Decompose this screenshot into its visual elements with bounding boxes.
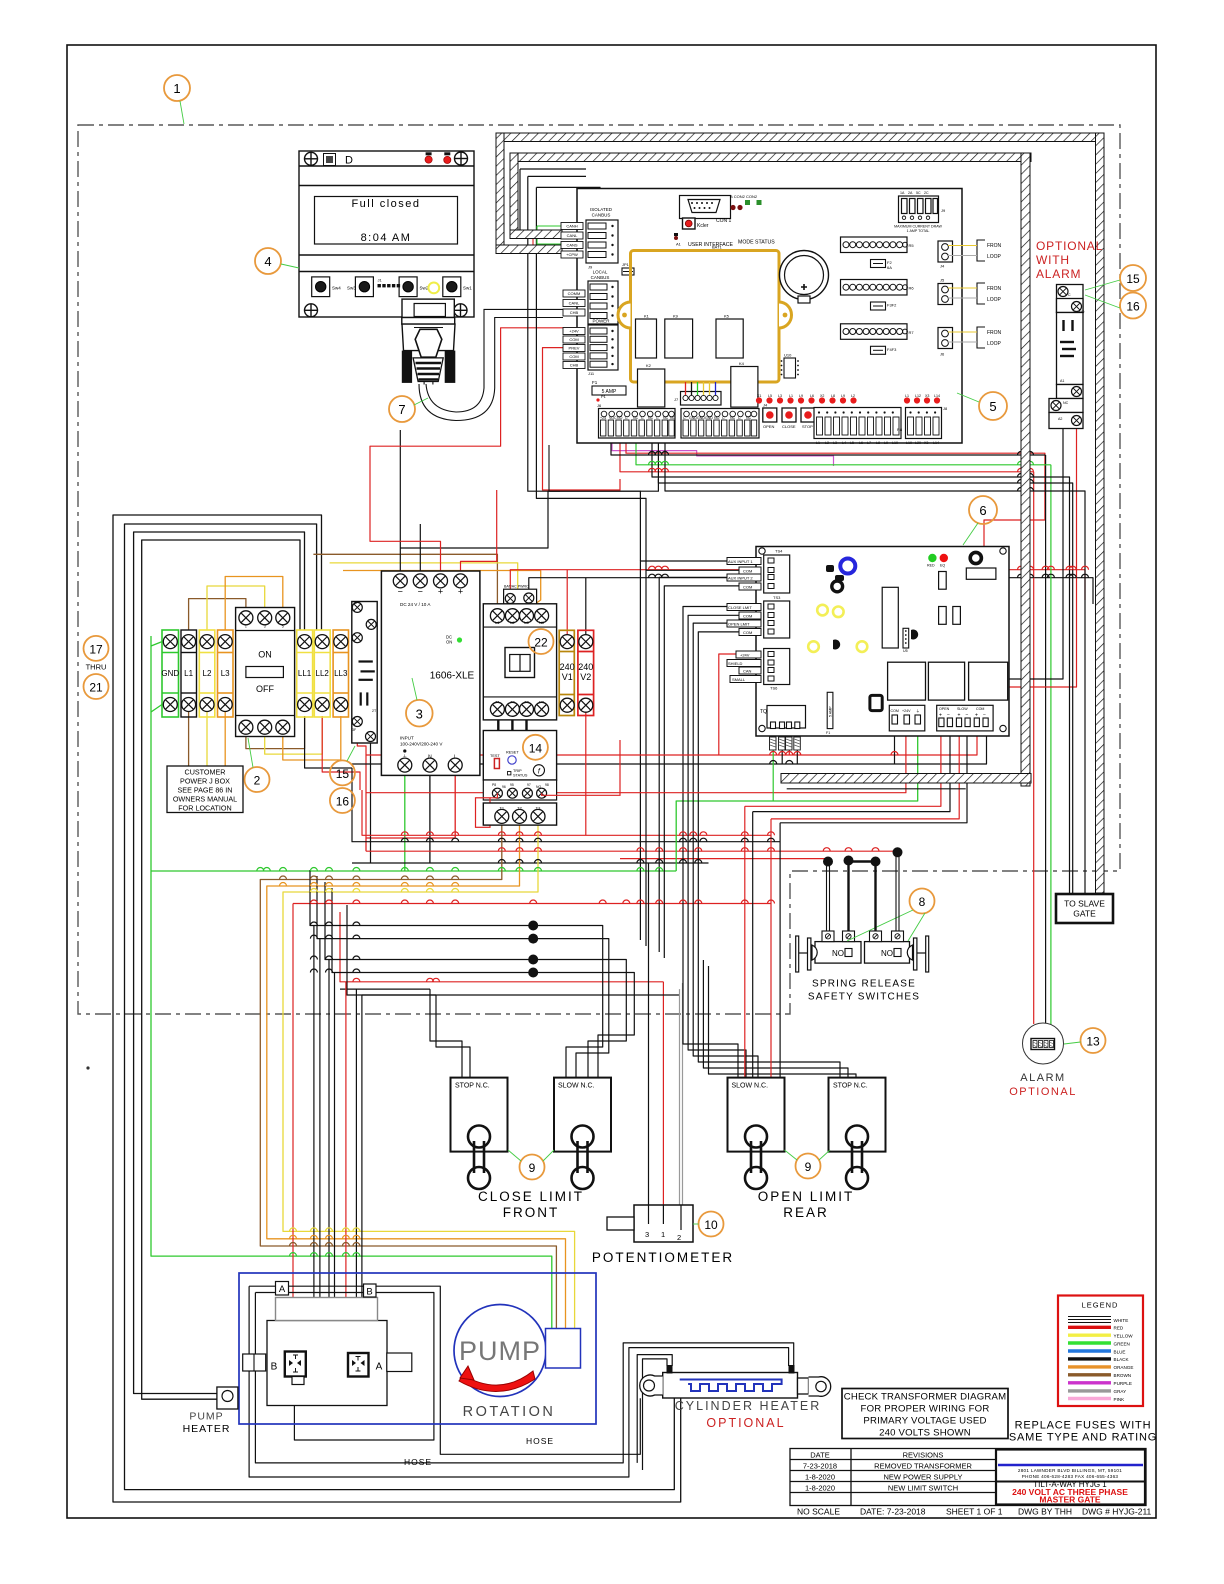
contactor-overload links [498, 720, 526, 731]
svg-text:L9: L9 [841, 394, 845, 398]
wire yellow power top bus [330, 563, 518, 610]
svg-text:8: 8 [919, 895, 926, 909]
svg-text:+CPW: +CPW [566, 252, 578, 257]
wire black board5 bus [611, 438, 1046, 455]
svg-text:ROTATION: ROTATION [463, 1404, 556, 1420]
svg-text:GND: GND [161, 669, 179, 678]
svg-text:OFF: OFF [256, 684, 274, 694]
pump enclosure blue box [239, 1273, 596, 1424]
keypad buttons Sw4 Sw3 Sw2 Sw1 [312, 277, 461, 297]
svg-text:K5: K5 [724, 314, 730, 319]
wire black relay coil [1009, 429, 1063, 679]
wire green gnd jumpers [151, 642, 162, 646]
svg-text:K2: K2 [646, 363, 652, 368]
svg-text:L20: L20 [915, 441, 921, 445]
B tag [364, 1284, 377, 1297]
TQ wire tags [770, 737, 801, 750]
svg-text:OPEN: OPEN [763, 424, 774, 429]
callout circle 9 front [520, 1155, 545, 1180]
svg-text:FRONT: FRONT [503, 1205, 560, 1220]
svg-text:OPTIONAL: OPTIONAL [706, 1416, 785, 1430]
TO SLAVE GATE box [1056, 894, 1113, 923]
svg-text:L14: L14 [934, 394, 940, 398]
svg-text:R7: R7 [909, 330, 915, 335]
svg-text:USER INTERFACE: USER INTERFACE [688, 242, 734, 248]
spring release switch left [815, 942, 861, 964]
svg-text:NC: NC [648, 416, 654, 420]
svg-text:ALARM: ALARM [1036, 267, 1081, 281]
pump terminal box [546, 1329, 581, 1369]
serial cable 7 [426, 309, 563, 412]
svg-text:A2: A2 [1058, 417, 1062, 421]
cylinder left ear [640, 1375, 663, 1396]
svg-text:COM: COM [743, 585, 752, 590]
svg-text:R6: R6 [909, 286, 915, 291]
callout circle 15 [1120, 265, 1146, 291]
svg-text:2801 LAWNDER BLVD BILLINGS, MT: 2801 LAWNDER BLVD BILLINGS, MT, 59101 [1018, 1468, 1122, 1473]
callout circle 4 [255, 248, 281, 274]
wire black pump solenoid pair1 [313, 926, 315, 1323]
svg-text:CANH: CANH [566, 224, 577, 229]
svg-text:L12: L12 [915, 394, 921, 398]
svg-text:8:04 AM: 8:04 AM [361, 232, 412, 244]
svg-text:WHITE: WHITE [1114, 1318, 1129, 1323]
bottom info row [797, 1507, 1152, 1517]
svg-text:COM: COM [569, 354, 578, 359]
svg-text:V2: V2 [580, 672, 591, 682]
board6 TS4 labels [727, 558, 761, 591]
svg-text:L8: L8 [876, 441, 880, 445]
svg-text:L3: L3 [778, 394, 782, 398]
wire orange T2 bus [267, 824, 566, 1330]
control board U5 outline [577, 189, 962, 444]
svg-text:JP1: JP1 [622, 262, 630, 267]
wire duct inner hatched band [510, 153, 1031, 789]
svg-text:LOCAL: LOCAL [593, 270, 608, 275]
fuse holder 240V1 [559, 630, 574, 715]
spring switch terminals [822, 931, 904, 942]
wire red solenoid B [292, 904, 294, 1352]
svg-text:B: B [366, 1287, 372, 1298]
svg-text:97: 97 [527, 783, 531, 787]
svg-text:L1: L1 [816, 441, 820, 445]
svg-text:OPEN LIMIT: OPEN LIMIT [758, 1189, 855, 1204]
svg-text:STATUS: STATUS [513, 774, 528, 778]
svg-text:STOP N.C.: STOP N.C. [455, 1083, 490, 1090]
svg-text:5: 5 [989, 399, 996, 414]
wire black bus under board6 [352, 727, 987, 764]
legend brown wire [1068, 1373, 1111, 1376]
svg-text:CON 1: CON 1 [716, 218, 732, 224]
svg-text:STOP: STOP [802, 424, 813, 429]
svg-text:L2: L2 [825, 441, 829, 445]
svg-text:1 AMP TOTAL: 1 AMP TOTAL [907, 229, 930, 233]
wire yellow L2 to disconnect [207, 586, 265, 630]
svg-text:MODE STATUS: MODE STATUS [738, 240, 775, 246]
svg-text:L4: L4 [842, 441, 846, 445]
svg-text:5 AMP: 5 AMP [829, 706, 833, 717]
svg-text:SEE PAGE 86 IN: SEE PAGE 86 IN [178, 786, 233, 795]
wire red canbus [533, 235, 588, 237]
wire red pot bus 981 [340, 912, 663, 982]
svg-text:SLOW N.C.: SLOW N.C. [558, 1083, 595, 1090]
solenoid B [285, 1352, 306, 1377]
board5 J7 connector colored wires [681, 392, 722, 406]
wire red TS2 24v [719, 654, 736, 755]
svg-text:L1: L1 [184, 669, 193, 678]
svg-text:HEATER: HEATER [183, 1423, 231, 1435]
terminal column L1 [181, 630, 197, 717]
svg-text:ON: ON [446, 640, 452, 645]
wire brown L1 bottom [188, 712, 190, 766]
solenoid A [348, 1353, 369, 1377]
svg-text:GRAY: GRAY [1114, 1389, 1127, 1394]
svg-text:LL1: LL1 [298, 669, 312, 678]
wire green board6 earth [676, 727, 918, 871]
svg-text:WITH: WITH [1036, 253, 1070, 267]
wire green psu earth [404, 772, 406, 871]
svg-text:SLOW: SLOW [957, 707, 968, 711]
svg-text:16: 16 [336, 795, 350, 809]
board6 black ring [970, 552, 981, 563]
DB9 side grips [402, 351, 412, 383]
svg-text:PUMP: PUMP [189, 1411, 223, 1423]
keypad logo chip [324, 154, 336, 166]
FRONT LOOP bracket labels [977, 240, 985, 348]
svg-text:P8: P8 [492, 783, 496, 787]
terminal column L2 [199, 630, 215, 717]
wire black rear stop [703, 960, 848, 1077]
callout circle 16b [330, 788, 355, 813]
svg-text:NC: NC [730, 416, 736, 420]
wire red solenoid A [346, 982, 357, 1353]
wire green canbus [537, 225, 588, 227]
svg-text:L2: L2 [203, 669, 212, 678]
board5 bottom terminal strip 4 [906, 408, 942, 439]
svg-text:2: 2 [254, 774, 261, 788]
svg-text:NC: NC [1063, 401, 1069, 405]
svg-text:OPTIONAL: OPTIONAL [1036, 239, 1103, 253]
terminal column GND [162, 630, 179, 717]
svg-text:6A: 6A [887, 265, 892, 270]
svg-text:CLOSE LMIT: CLOSE LMIT [728, 605, 752, 610]
callout circle 9 rear [796, 1154, 821, 1179]
limit switch STOP NC rear [829, 1078, 886, 1152]
svg-text:NEW LIMIT SWITCH: NEW LIMIT SWITCH [888, 1484, 958, 1493]
wire red psu L [366, 772, 455, 851]
board5 CPU module gold outline [618, 251, 792, 383]
board5 CON1 LED [683, 218, 696, 229]
svg-text:L7: L7 [867, 441, 871, 445]
svg-text:NC: NC [746, 416, 752, 420]
circuit breaker CB1 [352, 602, 377, 744]
legend blue wire [1068, 1349, 1111, 1352]
wire black bus 938 [317, 876, 609, 1077]
board5 DB9 CON1 [680, 196, 731, 219]
svg-text:DC 24 V / 10 A: DC 24 V / 10 A [400, 602, 431, 607]
svg-text:LL3: LL3 [334, 669, 348, 678]
board5 LED row 2 [905, 394, 940, 398]
svg-text:240: 240 [578, 662, 593, 672]
DB9 connector P1 [402, 299, 455, 351]
svg-text:C: C [722, 416, 725, 420]
wire board6 power com [894, 727, 896, 764]
svg-text:F3F2: F3F2 [887, 303, 897, 308]
wire red open plus [745, 727, 941, 806]
wire red overload left [490, 793, 497, 798]
fuse holder 240V2 [578, 630, 594, 715]
board6 output connector [937, 705, 993, 731]
wire green bus 871 [151, 870, 676, 872]
wire red bus 903 [293, 903, 771, 905]
svg-text:GREEN: GREEN [1114, 1342, 1130, 1347]
svg-text:NEW POWER SUPPLY: NEW POWER SUPPLY [883, 1473, 962, 1482]
alarm connector circle 13 [1023, 1023, 1064, 1064]
title block table [790, 1449, 1146, 1506]
svg-text:95: 95 [510, 783, 514, 787]
valve manifold outer [267, 1321, 387, 1406]
callout circle 17 [84, 636, 109, 661]
svg-text:COM: COM [743, 614, 752, 619]
svg-text:THRU: THRU [86, 663, 107, 672]
wire purple board5 [612, 438, 834, 466]
alarm relay K15 [1049, 285, 1083, 429]
LEGEND box [1058, 1296, 1143, 1407]
svg-text:A1: A1 [1060, 379, 1064, 383]
svg-text:PURPLE: PURPLE [1114, 1381, 1132, 1386]
svg-text:LEGEND: LEGEND [1082, 1301, 1119, 1310]
board6 tall component [882, 587, 898, 648]
legend green wire [1068, 1341, 1111, 1344]
svg-text:CLOSE: CLOSE [782, 424, 796, 429]
T1 T2 T3 output block [483, 803, 556, 825]
board6 small rects [939, 572, 947, 590]
svg-text:+: + [438, 587, 443, 597]
svg-text:NC: NC [663, 416, 669, 420]
board6 relays [888, 662, 926, 700]
cylinder right cap [798, 1378, 809, 1394]
svg-text:LOOP: LOOP [987, 254, 1002, 260]
board5 bottom terminal strip 3 [814, 408, 901, 439]
enclosure dash-dot boundary [78, 125, 1120, 1014]
svg-text:NO SCALE: NO SCALE [797, 1507, 840, 1517]
svg-text:⏚: ⏚ [916, 708, 920, 713]
svg-text:5C: 5C [916, 191, 921, 195]
DB9 thumb hexagon [415, 329, 442, 357]
wire black psu minus2 [419, 524, 421, 574]
board5 aux pins right of CON1 [730, 205, 735, 210]
wire red alarm [1033, 472, 1035, 1024]
wire TQ red [788, 750, 790, 755]
svg-text:−: − [418, 587, 423, 597]
svg-text:C: C [1068, 293, 1071, 297]
svg-text:D: D [345, 155, 353, 167]
overload bottom terminals [483, 780, 556, 800]
legend black wire [1068, 1357, 1111, 1360]
wire TQ black 1 [781, 750, 783, 764]
svg-text:OPEN: OPEN [939, 707, 950, 711]
rotation arrow [459, 1371, 535, 1392]
USER INTERFACE / MODE STATUS labels [674, 236, 678, 240]
wire red aux bus [510, 570, 1085, 600]
svg-text:7: 7 [398, 402, 405, 417]
wire black pump solenoid pair3 [355, 989, 357, 1322]
svg-text:DWG BY THH: DWG BY THH [1018, 1507, 1072, 1517]
svg-text:22: 22 [534, 636, 548, 650]
wire yellow T3 bus [283, 824, 575, 1330]
callout circle 8 [910, 889, 935, 914]
margin dot [86, 1066, 89, 1069]
wire black psu minus [399, 430, 401, 574]
svg-text:REMOVED TRANSFORMER: REMOVED TRANSFORMER [874, 1462, 972, 1471]
svg-text:1-8-2020: 1-8-2020 [805, 1484, 835, 1493]
CAN wire labels [561, 223, 583, 259]
wire hose inner loop [255, 1293, 434, 1441]
keypad yellow indicator [428, 283, 439, 294]
expansion board U6 outline [756, 547, 1009, 737]
svg-text:A1: A1 [676, 242, 682, 247]
wire TQ green [772, 750, 774, 801]
svg-text:1: 1 [661, 1230, 665, 1239]
power supply 1606-XLE [381, 571, 480, 775]
wire green board5 bus [636, 438, 1051, 465]
svg-text:V1: V1 [562, 672, 573, 682]
svg-text:PRIMARY VOLTAGE USED: PRIMARY VOLTAGE USED [863, 1416, 986, 1427]
wire black aux input loops [640, 561, 727, 940]
svg-text:POTENTIOMETER: POTENTIOMETER [592, 1250, 734, 1265]
keypad corner screws [305, 152, 318, 165]
svg-text:HOSE: HOSE [404, 1457, 432, 1467]
svg-text:K1: K1 [644, 314, 650, 319]
svg-text:98: 98 [545, 783, 549, 787]
wire gray potentiometer [679, 989, 681, 1228]
svg-text:P1: P1 [601, 394, 607, 399]
board6 power connector [889, 705, 925, 731]
svg-text:CANL: CANL [567, 233, 578, 238]
svg-text:U5: U5 [903, 649, 908, 653]
svg-text:CANBUS: CANBUS [591, 275, 610, 280]
wire black bus 959 [325, 882, 626, 1077]
svg-text:B CON2 CON2: B CON2 CON2 [730, 194, 758, 199]
spring release switch right [865, 942, 910, 964]
keypad unit U4 [299, 151, 474, 317]
callout circle 1 [164, 75, 190, 101]
cylinder heater element blue [680, 1380, 782, 1392]
svg-text:TQ: TQ [760, 709, 767, 715]
svg-text:240 VOLTS SHOWN: 240 VOLTS SHOWN [879, 1428, 971, 1439]
board5 bottom terminal strip 2 [681, 409, 759, 439]
wire black motor feed 2 [125, 524, 675, 1490]
svg-text:LOOP: LOOP [987, 297, 1002, 303]
board6 D-caps [833, 640, 840, 650]
wire brown power top bus [313, 554, 497, 610]
svg-text:GND: GND [705, 416, 713, 420]
svg-text:MAXIMUM CURRENT DRAW: MAXIMUM CURRENT DRAW [894, 225, 942, 229]
MAIN_CONTENT [113, 169, 1093, 1502]
svg-text:ISOLATED: ISOLATED [590, 207, 613, 212]
svg-text:4: 4 [264, 254, 271, 269]
svg-text:BROWN: BROWN [1114, 1373, 1132, 1378]
svg-text:DATE: 7-23-2018: DATE: 7-23-2018 [860, 1507, 926, 1517]
svg-text:F1: F1 [826, 731, 830, 735]
svg-text:+24V: +24V [569, 329, 579, 334]
wire junction dots bus [528, 921, 538, 978]
svg-text:L1: L1 [789, 394, 793, 398]
svg-text:BAT/AC PWRC: BAT/AC PWRC [504, 585, 529, 589]
wire red relay coil [1009, 429, 1077, 688]
svg-text:L8: L8 [831, 394, 835, 398]
svg-text:LOOP: LOOP [987, 341, 1002, 347]
wire orange L3 to disconnect [225, 577, 283, 631]
svg-text:L2: L2 [851, 394, 855, 398]
wire green left ground [151, 636, 552, 1330]
CUSTOMER POWER J BOX note [167, 766, 243, 813]
svg-text:U10: U10 [784, 353, 792, 358]
callout circle 5 [979, 392, 1007, 420]
wire black front stop 2 [436, 995, 470, 1077]
wire duct outer hatched band [496, 133, 1104, 893]
svg-text:MASTER GATE: MASTER GATE [1039, 1495, 1101, 1505]
board6 fuse F1 [827, 692, 833, 728]
svg-text:BLUE: BLUE [1114, 1349, 1126, 1354]
svg-text:CANS: CANS [566, 243, 577, 248]
svg-text:FRON: FRON [987, 243, 1002, 249]
board6 white rect [966, 568, 996, 579]
manifold right port [387, 1353, 412, 1372]
svg-text:RED: RED [1114, 1326, 1124, 1331]
svg-text:NO: NO [1079, 310, 1085, 314]
svg-text:Full closed: Full closed [351, 198, 420, 210]
svg-text:K9: K9 [673, 314, 679, 319]
board5 terminal strip R6 [841, 280, 908, 296]
svg-text:21: 21 [89, 681, 103, 695]
callout circle 16 [1120, 293, 1146, 319]
svg-text:C: C [641, 416, 644, 420]
svg-text:FOR LOCATION: FOR LOCATION [178, 804, 231, 813]
svg-text:15: 15 [1126, 272, 1140, 286]
svg-text:COM: COM [891, 709, 899, 713]
wire black close limit 1 [683, 607, 738, 1078]
wire red psu plus2 [461, 490, 497, 574]
svg-text:YELLOW: YELLOW [1114, 1334, 1134, 1339]
terminal column LL3 [333, 630, 348, 717]
wire red 240V1 top [566, 570, 568, 635]
svg-text:1: 1 [245, 625, 247, 629]
wire black pump heater 1 [134, 532, 305, 1394]
svg-text:TEST: TEST [490, 754, 500, 758]
svg-text:SHEET 1 OF 1: SHEET 1 OF 1 [946, 1507, 1003, 1517]
svg-text:L9: L9 [799, 394, 803, 398]
svg-text:ON: ON [258, 650, 272, 660]
svg-text:3: 3 [416, 707, 423, 722]
svg-text:EQ: EQ [940, 564, 945, 568]
svg-text:X3: X3 [924, 441, 928, 445]
wire black front stop 1 [430, 989, 462, 1077]
wire black motor feed 1 [113, 515, 681, 1502]
potentiometer R10 [634, 1205, 693, 1242]
wire black psu N [429, 772, 431, 863]
svg-text:POWER: POWER [592, 319, 610, 324]
CHECK TRANSFORMER note [842, 1389, 1008, 1439]
svg-text:3: 3 [645, 1230, 649, 1239]
wire black aux bus [529, 578, 1093, 604]
svg-text:CAN: CAN [743, 669, 752, 674]
legend orange wire [1068, 1365, 1111, 1368]
svg-text:L9: L9 [884, 441, 888, 445]
wire board6 power 24v [366, 727, 906, 793]
board6 chip U5 [903, 628, 909, 648]
board5 edge connector J6b [938, 328, 953, 349]
